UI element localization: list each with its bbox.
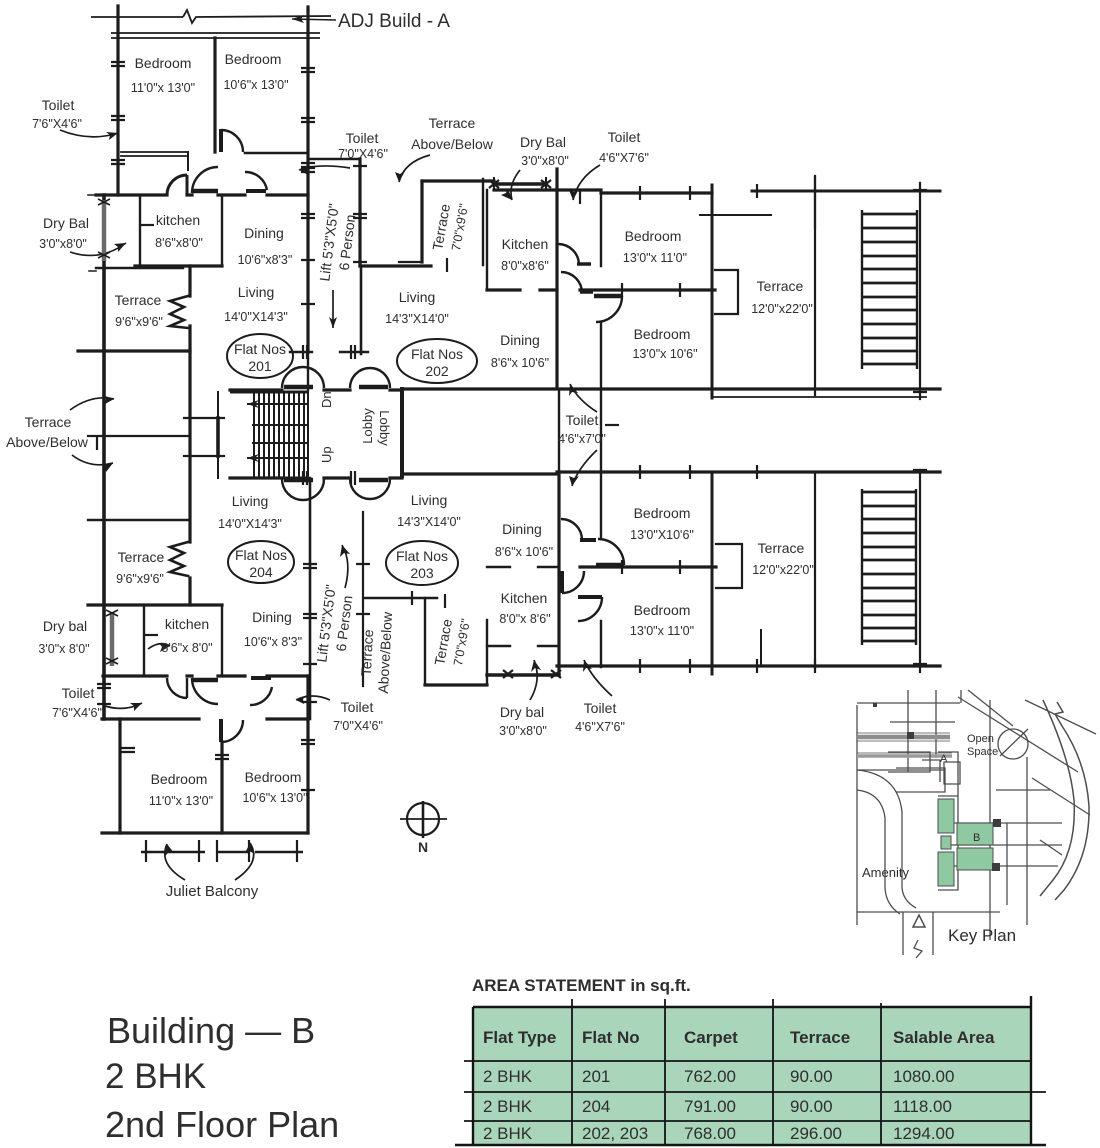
- svg-text:12'0"x22'0": 12'0"x22'0": [752, 563, 814, 577]
- svg-text:Flat No: Flat No: [582, 1028, 640, 1047]
- svg-text:Space: Space: [967, 746, 998, 758]
- svg-text:Lobby: Lobby: [360, 408, 375, 444]
- svg-text:Bedroom: Bedroom: [245, 769, 302, 785]
- arrow dry bal 202: [511, 170, 520, 200]
- bedroom bottom wall y=833: [102, 831, 308, 834]
- bedroom wing right wall x=714 lower: [711, 472, 714, 674]
- second divider line y=397: [712, 396, 926, 398]
- svg-text:7'0"X4'6": 7'0"X4'6": [333, 719, 383, 733]
- svg-text:2nd Floor Plan: 2nd Floor Plan: [105, 1104, 339, 1145]
- big diagonals: [958, 690, 1096, 855]
- bedroom 202 door: [594, 294, 622, 299]
- svg-text:204: 204: [249, 564, 273, 580]
- flat nos 204: [228, 541, 294, 583]
- toilet band walls x=559/601: [559, 390, 601, 472]
- svg-text:4'6"X7'6": 4'6"X7'6": [575, 720, 625, 734]
- svg-text:Dry Bal: Dry Bal: [520, 134, 566, 150]
- svg-text:3'0"x 8'0": 3'0"x 8'0": [38, 642, 89, 656]
- svg-text:14'3"X14'0": 14'3"X14'0": [385, 312, 449, 326]
- toilet bottom-center door: [250, 687, 272, 705]
- svg-text:10'6"x 13'0": 10'6"x 13'0": [223, 78, 288, 92]
- svg-text:8'6"x 10'6": 8'6"x 10'6": [491, 356, 549, 370]
- wall x=557 central: [555, 169, 558, 387]
- terrace notch 202: [715, 270, 738, 314]
- key plan labels: [862, 733, 1016, 945]
- svg-text:Terrace: Terrace: [757, 278, 804, 294]
- svg-text:Salable Area: Salable Area: [893, 1028, 995, 1047]
- toilet 202 doors: [558, 244, 579, 265]
- bedroom2 201 door: [221, 130, 243, 152]
- svg-text:8'6"x 10'6": 8'6"x 10'6": [495, 545, 553, 559]
- svg-text:Key Plan: Key Plan: [948, 926, 1016, 945]
- door flat201 entrance: [282, 367, 324, 388]
- kitchen-toilet passage door 201: [192, 167, 218, 193]
- arrow toilet top-center: [299, 166, 350, 170]
- svg-text:Dry Bal: Dry Bal: [43, 215, 89, 231]
- svg-text:7'6"X4'6": 7'6"X4'6": [32, 117, 82, 131]
- arrow terrace above/below left lower: [72, 455, 113, 465]
- svg-text:10'6"x8'3": 10'6"x8'3": [238, 253, 293, 267]
- svg-text:Toilet: Toilet: [341, 699, 374, 715]
- svg-text:Living: Living: [238, 284, 275, 300]
- svg-text:Living: Living: [399, 289, 436, 305]
- svg-text:9'6"x9'6": 9'6"x9'6": [115, 315, 163, 329]
- terrace lower bottom wall / kitchen 204 top: [88, 603, 222, 606]
- svg-text:Carpet: Carpet: [684, 1028, 738, 1047]
- wall between bedrooms x=215: [213, 38, 216, 152]
- svg-text:3'0"x8'0": 3'0"x8'0": [39, 237, 87, 251]
- svg-text:3'0"x8'0": 3'0"x8'0": [521, 154, 569, 168]
- arrow toilet 204: [105, 703, 142, 708]
- svg-text:Bedroom: Bedroom: [634, 326, 691, 342]
- front wall of flats y=352: [290, 351, 368, 353]
- living 201/204 left wall x=190 with squiggle openings: [188, 266, 191, 605]
- bedroom 204 door: [221, 720, 243, 742]
- svg-text:Living: Living: [232, 493, 269, 509]
- arrow toilet 201: [60, 130, 118, 137]
- left outer wall x=104: [102, 195, 106, 719]
- arrow dry bal 204: [148, 644, 170, 649]
- key plan bottom squiggle: [914, 940, 922, 958]
- arrow toilet 203: [584, 660, 612, 696]
- road S-curve inner: [857, 790, 900, 914]
- svg-text:Terrace: Terrace: [790, 1028, 850, 1047]
- lobby right wall x=402: [400, 389, 404, 476]
- svg-text:Bedroom: Bedroom: [634, 602, 691, 618]
- wall right of bedroom wing x=308: [306, 7, 309, 352]
- svg-text:4'6"X7'6": 4'6"X7'6": [599, 151, 649, 165]
- small wall tick y=215: [700, 214, 771, 216]
- svg-text:Dining: Dining: [252, 609, 292, 625]
- svg-text:Terrace: Terrace: [429, 115, 476, 131]
- wall left bedroom-wing x=118: [116, 6, 119, 195]
- svg-text:7'6"X4'6": 7'6"X4'6": [52, 706, 102, 720]
- svg-text:Dining: Dining: [500, 332, 540, 348]
- svg-text:Lobby: Lobby: [377, 410, 392, 446]
- svg-text:Toilet: Toilet: [584, 700, 617, 716]
- kitchen 202 left wall x=487: [486, 190, 488, 290]
- stair top/bottom walls: [230, 392, 309, 478]
- svg-text:kitchen: kitchen: [165, 616, 209, 632]
- top boundary line of adjacent building: [91, 10, 331, 38]
- toilet 204 doors: [167, 678, 187, 698]
- svg-text:Kitchen: Kitchen: [501, 590, 548, 606]
- arrow toilet 46x70 lower: [572, 450, 597, 486]
- kitchen 204 walls: [143, 605, 145, 676]
- table header text: [483, 1028, 995, 1047]
- svg-text:Toilet: Toilet: [608, 129, 641, 145]
- svg-text:N: N: [418, 839, 428, 855]
- small vertical x=761: [760, 630, 762, 666]
- landing passage walls: [217, 392, 219, 478]
- street grid horizontals: [857, 703, 1062, 912]
- svg-text:90.00: 90.00: [790, 1097, 833, 1116]
- svg-text:1118.00: 1118.00: [893, 1097, 952, 1116]
- svg-text:296.00: 296.00: [790, 1124, 842, 1143]
- corridor walls x=308..360 top: [358, 159, 361, 266]
- svg-text:Living: Living: [411, 492, 448, 508]
- svg-text:AREA STATEMENT in sq.ft.: AREA STATEMENT in sq.ft.: [472, 976, 691, 995]
- svg-text:Bedroom: Bedroom: [634, 505, 691, 521]
- small tick wall y=630: [700, 629, 761, 631]
- svg-text:Bedroom: Bedroom: [625, 228, 682, 244]
- door flat203 entrance: [350, 479, 390, 499]
- svg-text:1294.00: 1294.00: [893, 1124, 954, 1143]
- svg-text:Bedroom: Bedroom: [225, 51, 282, 67]
- corridor walls bottom x=310/363: [309, 478, 312, 719]
- svg-text:14'0"X14'3": 14'0"X14'3": [218, 517, 282, 531]
- svg-text:Juliet Balcony: Juliet Balcony: [166, 883, 259, 900]
- svg-text:1080.00: 1080.00: [893, 1067, 954, 1086]
- svg-text:202: 202: [425, 363, 449, 379]
- svg-text:768.00: 768.00: [684, 1124, 736, 1143]
- svg-text:3'0"x8'0": 3'0"x8'0": [499, 724, 547, 738]
- svg-text:Open: Open: [967, 733, 994, 745]
- svg-text:2 BHK: 2 BHK: [483, 1097, 533, 1116]
- svg-text:2 BHK: 2 BHK: [483, 1124, 533, 1143]
- svg-text:Flat Type: Flat Type: [483, 1028, 556, 1047]
- svg-text:203: 203: [410, 565, 434, 581]
- flat nos 202: [397, 339, 477, 383]
- svg-text:14'3"X14'0": 14'3"X14'0": [397, 515, 461, 529]
- svg-text:13'0"x 11'0": 13'0"x 11'0": [623, 251, 687, 265]
- stair hatch: [254, 392, 308, 478]
- toilet 201 door: [167, 175, 187, 195]
- svg-text:8'6"x8'0": 8'6"x8'0": [155, 236, 203, 250]
- toilet room top center wall y=153: [245, 152, 308, 155]
- svg-text:Toilet: Toilet: [566, 412, 599, 428]
- terrace notch 203: [716, 544, 742, 588]
- arrows juliet balcony: [165, 844, 185, 880]
- svg-text:Terrace: Terrace: [25, 414, 72, 430]
- svg-text:Up: Up: [319, 446, 334, 463]
- building B column outline: [938, 752, 958, 890]
- toilet 202 walls x=601: [600, 193, 602, 387]
- svg-text:14'0"X14'3": 14'0"X14'3": [224, 310, 288, 324]
- svg-text:Dining: Dining: [502, 521, 542, 537]
- svg-text:B: B: [973, 832, 980, 844]
- svg-text:Toilet: Toilet: [42, 97, 75, 113]
- label ADJ Build - A with arrow: [292, 11, 450, 32]
- stair flight lines: [247, 404, 309, 458]
- svg-text:8'6"x 8'0": 8'6"x 8'0": [161, 641, 212, 655]
- toilet 204 bottom wall y=719: [102, 717, 308, 720]
- svg-text:Amenity: Amenity: [862, 865, 909, 880]
- svg-text:Toilet: Toilet: [346, 130, 379, 146]
- arrow lift lower: [342, 545, 348, 588]
- terrace-above-below strip dividers: [88, 435, 190, 437]
- arrow toilet 204 right-side: [296, 696, 330, 700]
- svg-text:ADJ Build - A: ADJ Build - A: [338, 11, 450, 32]
- svg-text:Flat Nos: Flat Nos: [235, 547, 287, 563]
- building A outline: [888, 752, 960, 792]
- svg-text:2 BHK: 2 BHK: [105, 1057, 206, 1096]
- flat nos 201: [227, 334, 293, 378]
- terrace 70x96 (203): [424, 598, 426, 685]
- svg-text:Above/Below: Above/Below: [411, 136, 494, 152]
- central wall x=559 lower: [557, 472, 560, 674]
- arrow lift upper: [332, 290, 334, 328]
- svg-text:A: A: [940, 753, 948, 765]
- bottom wall of right wing y=666: [557, 664, 940, 667]
- svg-text:9'6"x9'6": 9'6"x9'6": [116, 572, 164, 586]
- svg-text:7'0"x9'6": 7'0"x9'6": [451, 618, 473, 667]
- kitchen 201 walls: [139, 195, 141, 266]
- open space circle: [998, 729, 1028, 759]
- wall y=598 with tick: [364, 597, 437, 600]
- svg-text:2 BHK: 2 BHK: [483, 1067, 533, 1086]
- svg-text:7'0"X4'6": 7'0"X4'6": [338, 147, 388, 161]
- svg-text:201: 201: [582, 1067, 610, 1086]
- table data text: [483, 1067, 954, 1143]
- svg-text:Bedroom: Bedroom: [135, 55, 192, 71]
- flat203 hall doors: [561, 519, 582, 540]
- small wall x=188: [187, 152, 189, 170]
- door flat204 entrance: [282, 479, 324, 500]
- key plan triangle: [913, 915, 925, 927]
- bedroom wing bottom-left walls: [118, 719, 121, 833]
- svg-text:Terrace: Terrace: [758, 540, 805, 556]
- svg-text:8'0"x 8'6": 8'0"x 8'6": [499, 612, 550, 626]
- terrace side lines: [814, 472, 816, 668]
- svg-text:7'0"x9'6": 7'0"x9'6": [449, 203, 471, 252]
- svg-text:762.00: 762.00: [684, 1067, 736, 1086]
- top wall of right wing y=193: [494, 190, 712, 193]
- svg-text:11'0"x 13'0": 11'0"x 13'0": [131, 81, 195, 95]
- toilet top-center door: [245, 172, 267, 190]
- svg-text:90.00: 90.00: [790, 1067, 833, 1086]
- svg-text:4'6"x7'0": 4'6"x7'0": [558, 432, 606, 446]
- dining/kitchen divider y=567: [487, 566, 559, 568]
- overshoot ticks left junctions: [88, 195, 96, 271]
- svg-text:Terrace: Terrace: [115, 292, 162, 308]
- svg-text:Above/Below: Above/Below: [375, 611, 395, 694]
- terrace squiggle upper: [170, 296, 188, 328]
- svg-text:Terrace: Terrace: [118, 549, 165, 565]
- arrow dry bal 201: [70, 243, 126, 255]
- corridor top wall y=159: [308, 158, 360, 161]
- svg-text:201: 201: [248, 358, 272, 374]
- svg-text:Flat Nos: Flat Nos: [411, 346, 463, 362]
- wide gray road bands: [857, 735, 950, 740]
- svg-text:12'0"x22'0": 12'0"x22'0": [751, 302, 813, 316]
- svg-text:Above/Below: Above/Below: [6, 434, 89, 450]
- svg-text:8'0"x8'6": 8'0"x8'6": [501, 259, 549, 273]
- svg-text:10'6"x 8'3": 10'6"x 8'3": [244, 635, 302, 649]
- svg-text:204: 204: [582, 1097, 610, 1116]
- divider y=474 east: [402, 472, 940, 474]
- svg-text:Flat Nos: Flat Nos: [234, 341, 286, 357]
- arrow toilet 202: [573, 165, 600, 200]
- svg-text:13'0"x 11'0": 13'0"x 11'0": [630, 624, 694, 638]
- bedroom wing right wall x=714: [711, 185, 714, 398]
- terrace 120x220 (202) side lines: [814, 176, 816, 395]
- key plan green buildings: [938, 799, 993, 886]
- svg-text:791.00: 791.00: [684, 1097, 736, 1116]
- svg-text:Dn: Dn: [319, 391, 334, 408]
- wall y=351 terrace strip: [78, 349, 190, 352]
- table green cells: [473, 1007, 1031, 1145]
- wall y=290 kitchen/dining + bedroom divider: [487, 288, 715, 291]
- svg-text:Dry bal: Dry bal: [43, 618, 87, 634]
- bedroom divider y=567: [580, 565, 716, 568]
- right wavy boundary: [1040, 700, 1074, 896]
- mid divider east y=389: [402, 387, 940, 390]
- terrace 96x96 upper top wall: [96, 267, 183, 269]
- svg-text:13'0"x 10'6": 13'0"x 10'6": [632, 347, 697, 361]
- svg-text:Terrace: Terrace: [358, 629, 376, 677]
- svg-text:Flat Nos: Flat Nos: [396, 548, 448, 564]
- svg-text:Bedroom: Bedroom: [151, 771, 208, 787]
- terrace 70x96 (202): [420, 181, 423, 262]
- door flat202 entrance: [350, 368, 390, 388]
- living202 top wall y=266: [360, 264, 431, 267]
- terrace squiggle lower: [170, 542, 188, 576]
- svg-text:Dining: Dining: [244, 225, 284, 241]
- flat nos 203: [386, 541, 458, 585]
- road lower strip: [903, 912, 933, 955]
- lobby bottom wall y=478: [230, 476, 402, 479]
- arrow dry bal 203: [530, 660, 537, 700]
- bedroom wing left wall x=601 lower: [600, 472, 602, 667]
- arrow terrace above/below 202: [399, 155, 430, 182]
- svg-text:11'0"x 13'0": 11'0"x 13'0": [149, 794, 213, 808]
- lobby top wall y=390: [230, 388, 402, 391]
- wall y=195 with door gaps: [96, 193, 308, 196]
- arrow toilet 46x70 upper: [570, 384, 597, 412]
- road S-curve outer: [857, 770, 916, 908]
- table grid: [455, 996, 1046, 1145]
- dry bal 202 top wall y=167: [494, 182, 546, 186]
- svg-text:13'0"X10'6": 13'0"X10'6": [630, 528, 694, 542]
- toilet 201 double wall y=152: [121, 152, 187, 156]
- svg-text:Kitchen: Kitchen: [502, 236, 549, 252]
- svg-text:10'6"x 13'0": 10'6"x 13'0": [242, 791, 307, 805]
- svg-text:Dry bal: Dry bal: [500, 704, 544, 720]
- svg-text:202, 203: 202, 203: [582, 1124, 648, 1143]
- svg-text:Building — B: Building — B: [107, 1010, 315, 1051]
- arrow terrace above/below left upper: [70, 398, 114, 410]
- street grid verticals: [857, 690, 1027, 940]
- kitchen bottom y=646: [487, 645, 559, 647]
- svg-text:kitchen: kitchen: [156, 212, 200, 228]
- dry bal 203 bottom y=675: [487, 673, 559, 676]
- svg-text:Toilet: Toilet: [62, 685, 95, 701]
- key plan small solid squares: [873, 703, 1001, 871]
